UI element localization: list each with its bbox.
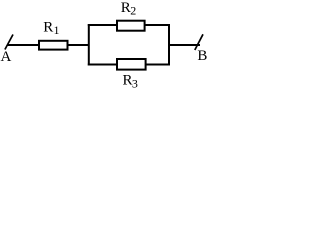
wire parallel section to B	[169, 44, 200, 46]
wire: left vertical of parallel loop	[88, 24, 90, 66]
wire A to R1	[8, 44, 40, 46]
svg-text:1: 1	[54, 23, 60, 37]
wire: bottom branch left segment	[88, 64, 117, 66]
svg-text:3: 3	[132, 76, 138, 90]
wire: right vertical of parallel loop	[168, 24, 170, 66]
resistor R2	[117, 21, 145, 31]
terminal A slash	[5, 35, 13, 50]
svg-text:R: R	[43, 19, 53, 35]
svg-text:A: A	[1, 49, 12, 65]
svg-text:2: 2	[130, 4, 136, 18]
svg-text:B: B	[197, 48, 207, 64]
wire: bottom branch right segment	[146, 64, 170, 66]
resistor R3	[117, 59, 146, 70]
resistor R1	[39, 41, 68, 50]
wire R1 to parallel section	[68, 44, 90, 46]
terminal B slash	[195, 34, 203, 50]
wire: top branch left segment	[88, 24, 117, 26]
wire: top branch right segment	[145, 24, 170, 26]
